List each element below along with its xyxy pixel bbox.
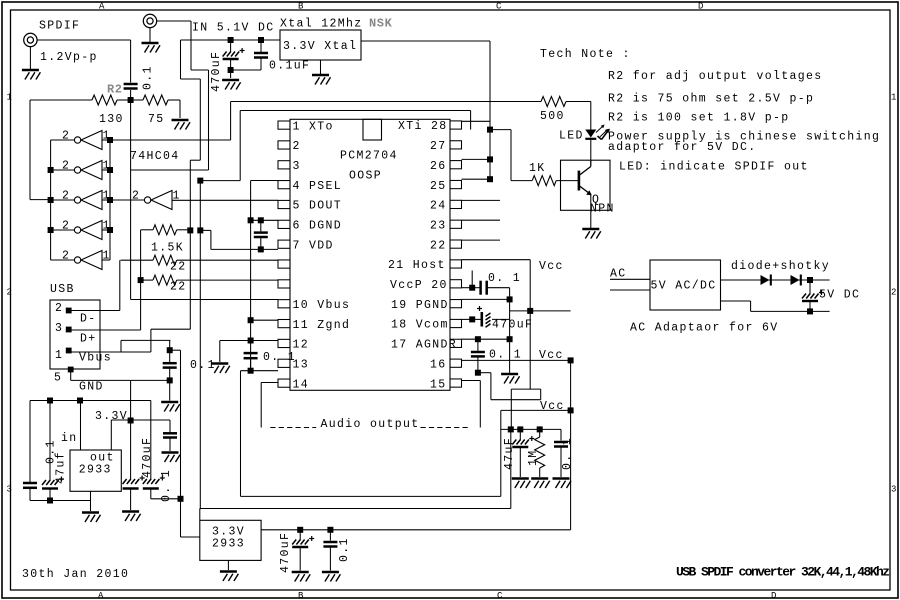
svg-text:4 PSEL: 4 PSEL	[293, 180, 343, 193]
capacitor 470uF Vcom electrolytic	[477, 306, 491, 327]
svg-text:USB SPDIF converter 32K,44,1,4: USB SPDIF converter 32K,44,1,48Khz	[676, 565, 889, 580]
junction rail 47uf	[47, 398, 53, 404]
regulator U3 2933 box	[70, 450, 121, 491]
junction pin26 tap	[487, 156, 493, 162]
svg-text:0. 1: 0. 1	[263, 351, 296, 364]
pin 1 square	[278, 121, 290, 129]
svg-text:Vbus: Vbus	[79, 352, 112, 365]
capacitor 0.1 VDD-DGND	[254, 220, 268, 252]
svg-text:VccP 20: VccP 20	[390, 279, 448, 292]
ground under SPDIF	[22, 69, 39, 71]
junction left bus row4	[48, 227, 54, 233]
wire pin19-20 vertical	[509, 288, 511, 373]
resistor 75	[131, 95, 180, 126]
wire AC input 2	[610, 289, 650, 291]
svg-text:15: 15	[430, 378, 447, 391]
svg-text:14: 14	[293, 378, 310, 391]
wire SPDIF tip	[37, 39, 130, 41]
wire 5V line B	[200, 509, 511, 521]
wire DGND	[251, 219, 278, 221]
wire rail 110 riser	[470, 111, 472, 130]
wire in pin	[80, 401, 82, 451]
svg-text:3: 3	[55, 322, 63, 335]
pin 16 square	[450, 359, 462, 367]
pin 6 square	[278, 220, 290, 228]
USB Vbus decouple jog	[121, 340, 170, 352]
svg-text:3.3V: 3.3V	[95, 410, 128, 423]
tech note checkmark	[598, 129, 611, 140]
svg-text:AC Adaptaor for 6V: AC Adaptaor for 6V	[630, 322, 779, 335]
junction 3.3V cap	[128, 418, 134, 424]
svg-text:47uf: 47uf	[55, 451, 68, 484]
svg-text:2: 2	[55, 302, 63, 315]
LED D1	[559, 125, 609, 143]
USB pin3 D+	[55, 322, 141, 346]
svg-text:25: 25	[430, 180, 447, 193]
svg-text:PCM2704: PCM2704	[340, 150, 398, 163]
wire 75 to ground	[179, 100, 181, 118]
ground under cluster 0.1	[553, 477, 570, 479]
svg-text:OOSP: OOSP	[349, 170, 382, 183]
wire adapter output return	[721, 301, 830, 311]
USB pin5 GND	[54, 367, 170, 394]
junction pin12 cap	[248, 338, 254, 344]
svg-text:in: in	[61, 432, 78, 445]
junction right bus row2	[107, 167, 113, 173]
junction clock line	[487, 127, 493, 133]
svg-text:0.1uF: 0.1uF	[269, 60, 310, 73]
wire adapter output +	[721, 279, 811, 281]
svg-text:D+: D+	[80, 333, 97, 346]
wire PSEL/ground vertical	[250, 181, 252, 371]
pin 18 square	[450, 319, 462, 327]
pin 15 square	[450, 379, 462, 387]
ground under 3.3V 0.1 cap	[162, 451, 179, 453]
zone numbers right	[891, 93, 896, 495]
junction Vcc pin16	[568, 357, 574, 363]
capacitor 0.1 bottom-left	[23, 483, 50, 501]
pin 27 square	[450, 141, 462, 149]
resistor 500	[540, 97, 591, 124]
wire Vbus branch to regulator	[170, 350, 199, 537]
svg-text:1: 1	[55, 349, 63, 362]
svg-text:22: 22	[430, 239, 447, 252]
inverter U1-6 driver gate	[110, 190, 181, 210]
ground under U4	[220, 570, 237, 572]
capacitor 47uF cluster electrolytic	[512, 429, 534, 477]
svg-text:SPDIF: SPDIF	[39, 20, 80, 33]
Xtal oscillator module box	[280, 30, 361, 60]
svg-text:0. 1: 0. 1	[561, 437, 574, 470]
junction Zgnd	[248, 317, 254, 323]
svg-text:2: 2	[132, 190, 140, 203]
svg-text:75: 75	[148, 113, 165, 126]
wire 5V jog B	[181, 40, 201, 230]
svg-text:3: 3	[891, 485, 896, 495]
wire SPDIF ground stem	[29, 47, 31, 70]
pin 10 square	[278, 300, 290, 308]
zone numbers left	[7, 93, 12, 495]
transistor Q NPN	[561, 160, 615, 215]
wire adapter 5V to Vcc rail	[510, 310, 571, 312]
junction regulator input cap	[178, 496, 184, 502]
svg-text:LED: LED	[559, 130, 584, 143]
ground under 470uF	[222, 79, 239, 81]
capacitor output electrolytic 5V DC	[802, 280, 824, 314]
svg-text:Xtal 12Mhz: Xtal 12Mhz	[280, 18, 363, 31]
wire pin21 Host to Vcc	[462, 260, 541, 430]
right input bus of inverters	[109, 140, 111, 260]
wire Vbus net riser	[151, 230, 190, 352]
svg-text:470uF: 470uF	[492, 319, 533, 332]
capacitor 0.1 AGNDR	[471, 339, 491, 400]
svg-text:R2: R2	[107, 83, 123, 97]
wire 500 to LED	[590, 102, 592, 130]
junction cluster riser	[508, 426, 514, 432]
svg-text:2: 2	[62, 220, 70, 233]
capacitor 470uF input	[223, 37, 245, 78]
inverter U1-4	[51, 220, 111, 240]
junction AGNDR	[507, 336, 513, 342]
wire pin16 Vcc	[462, 359, 571, 361]
wire pin26 tap	[462, 158, 491, 160]
wire 5V input rail	[181, 39, 281, 41]
resistor 1M	[527, 429, 545, 477]
svg-text:C: C	[496, 2, 502, 12]
svg-text:30th Jan 2010: 30th Jan 2010	[22, 568, 129, 581]
svg-text:Vcc: Vcc	[539, 349, 564, 362]
svg-text:3: 3	[7, 485, 12, 495]
svg-text:1.2Vp-p: 1.2Vp-p	[40, 51, 98, 64]
junction right bus row3	[107, 197, 113, 203]
wire VccP pin20	[462, 271, 510, 291]
wire regulator ground	[90, 491, 92, 511]
IC U2 PCM2704 body	[290, 119, 450, 390]
svg-text:0.1: 0.1	[142, 65, 155, 90]
junction output cap +	[807, 277, 813, 283]
inverter U1-5	[51, 250, 111, 270]
pin 12 square	[278, 339, 290, 347]
svg-text:27: 27	[430, 140, 447, 153]
pin 5 square	[278, 200, 290, 208]
ground under Xtal box	[312, 74, 329, 76]
ground AGNDR	[501, 373, 518, 375]
svg-text:R2 for adj output voltages: R2 for adj output voltages	[608, 70, 823, 83]
ground under 1M	[531, 477, 548, 479]
wire output stub +	[810, 279, 830, 281]
junction U4 0.1	[327, 527, 333, 533]
wire out pin / 3.3V line	[111, 420, 170, 450]
wire pin25 tap	[462, 178, 491, 180]
svg-text:1M: 1M	[527, 449, 540, 466]
svg-text:0. 1: 0. 1	[489, 349, 522, 362]
svg-text:A: A	[99, 2, 105, 12]
junction AGNDR cap	[475, 336, 481, 342]
svg-text:0. 1: 0. 1	[160, 469, 173, 502]
svg-text:5: 5	[54, 372, 62, 385]
diode D3 shotky	[791, 275, 800, 285]
svg-text:23: 23	[430, 219, 447, 232]
svg-text:24: 24	[430, 200, 447, 213]
pin 25 square	[450, 180, 462, 188]
capacitor R2 0.1 (series output cap)	[124, 40, 138, 100]
wire Vcc cluster line	[501, 410, 571, 496]
wire clock vertical taps	[489, 130, 491, 180]
audio output dashed line left	[270, 427, 316, 429]
node junction at attenuator	[128, 97, 134, 103]
ground mid	[211, 362, 228, 364]
svg-text:0.: 0.	[190, 359, 207, 372]
junction rail in-pin	[77, 398, 83, 404]
wire Zgnd	[251, 319, 278, 321]
pin 20 square	[450, 280, 462, 288]
junction DGND vertical	[248, 217, 254, 223]
pin 24 square	[450, 200, 462, 208]
capacitor 0.1 cluster	[554, 429, 568, 477]
svg-text:1 XTo: 1 XTo	[293, 120, 334, 133]
svg-text:3.3V Xtal: 3.3V Xtal	[283, 40, 357, 53]
svg-text:470uF: 470uF	[141, 437, 154, 478]
svg-text:470uF: 470uF	[210, 51, 223, 92]
wire inverter input bus to LED rail	[110, 102, 231, 141]
wire rail 110	[200, 111, 470, 181]
svg-text:IN 5.1V DC: IN 5.1V DC	[192, 22, 275, 35]
pin 3 square	[278, 161, 290, 169]
wire pin12 ground	[220, 340, 278, 342]
wire vertical net to pin10	[199, 181, 201, 510]
junction Vcc adapter line	[527, 308, 533, 314]
wire clock to 1K	[490, 129, 511, 131]
svg-text:LED: indicate SPDIF out: LED: indicate SPDIF out	[619, 161, 809, 174]
svg-text:10 Vbus: 10 Vbus	[293, 299, 351, 312]
svg-text:R2 is 100 set 1.8V p-p: R2 is 100 set 1.8V p-p	[608, 112, 790, 125]
svg-text:12: 12	[293, 339, 310, 352]
svg-text:5V DC: 5V DC	[819, 289, 860, 302]
pin 14 square	[278, 379, 290, 387]
wire Xtal ground stem	[320, 60, 322, 74]
junction Vcc cluster	[568, 407, 574, 413]
wire DOUT to inverter	[172, 199, 279, 201]
wire VDD	[200, 230, 278, 249]
pin 9 square	[278, 280, 290, 288]
pin 7 square	[278, 240, 290, 248]
junction DGND cap	[258, 217, 264, 223]
audio output dashed line right	[421, 427, 470, 429]
ground under 75	[172, 119, 189, 121]
resistor 22 D+	[138, 275, 278, 293]
junction right bus row4	[107, 227, 113, 233]
wire PSEL strap	[251, 180, 278, 182]
svg-text:B: B	[298, 2, 304, 12]
pin 22 square	[450, 240, 462, 248]
capacitor 470uF 3.3V electrolytic	[123, 380, 145, 510]
wire 5V jog A	[131, 21, 209, 170]
svg-text:16: 16	[430, 358, 447, 371]
capacitor 0.1uF input	[231, 37, 268, 70]
wire pin13 return line	[241, 495, 501, 497]
IN RCA connector J2	[143, 14, 274, 34]
svg-text:NSK: NSK	[369, 17, 393, 31]
wire Vcom pin18	[462, 316, 510, 322]
inverter U1-3	[51, 190, 111, 210]
capacitor 47uf electrolytic	[42, 401, 91, 504]
pin 28 square	[450, 121, 462, 129]
wire AGNDR pin17	[462, 338, 510, 340]
svg-text:2: 2	[62, 130, 70, 143]
svg-text:B: B	[298, 591, 304, 600]
junction PSEL net	[197, 178, 203, 184]
diode D2	[761, 275, 770, 285]
svg-text:2: 2	[891, 288, 896, 298]
svg-text:2: 2	[62, 250, 70, 263]
resistor 1.5K	[141, 225, 191, 255]
wire LED to collector	[590, 139, 592, 166]
svg-text:R2 is 75 ohm set 2.5V p-p: R2 is 75 ohm set 2.5V p-p	[608, 93, 814, 106]
wire pin22 stub	[462, 239, 501, 241]
wire pin14 bracket	[261, 383, 278, 428]
svg-text:1: 1	[208, 359, 216, 372]
wire pin24 stub	[462, 199, 501, 201]
pin 8 square	[278, 260, 290, 268]
wire D- riser	[119, 260, 121, 310]
wire U4 output 3.3V to Vcc	[261, 529, 570, 531]
junction cluster ecap	[517, 426, 523, 432]
ground under IN connector	[142, 42, 159, 44]
svg-text:6 DGND: 6 DGND	[293, 220, 343, 233]
svg-text:19 PGND: 19 PGND	[391, 299, 449, 312]
capacitor 0.1 Vbus	[163, 340, 177, 400]
wire cluster top	[501, 428, 561, 430]
capacitor 470uF U4 electrolytic	[292, 530, 314, 571]
svg-text:22: 22	[170, 281, 187, 294]
wire PGND pin19	[462, 298, 510, 300]
svg-text:AC: AC	[610, 268, 627, 281]
svg-text:GND: GND	[79, 381, 104, 394]
svg-text:D: D	[698, 2, 703, 12]
svg-text:Tech Note :: Tech Note :	[540, 48, 631, 61]
svg-text:XTi 28: XTi 28	[398, 120, 448, 133]
wire Xtal clock output	[361, 41, 490, 130]
USB pin1 Vbus	[55, 348, 151, 365]
wire pin23 stub	[462, 219, 501, 221]
svg-text:0.1: 0.1	[338, 537, 351, 562]
zone letters bottom	[98, 591, 776, 600]
svg-text:130: 130	[99, 113, 124, 126]
SPDIF RCA connector J1	[24, 20, 81, 47]
junction cluster resistor	[537, 426, 543, 432]
ground under U4 470uF	[292, 571, 309, 573]
svg-text:2: 2	[7, 288, 12, 298]
svg-text:3: 3	[293, 160, 301, 173]
pin 4 square	[278, 181, 290, 189]
svg-text:21 Host: 21 Host	[388, 259, 446, 272]
svg-text:2: 2	[293, 140, 301, 153]
svg-text:5V AC/DC: 5V AC/DC	[651, 280, 717, 293]
pin 17 square	[450, 339, 462, 347]
svg-text:1.5K: 1.5K	[151, 242, 184, 255]
pin 21 square	[450, 260, 462, 268]
svg-text:7 VDD: 7 VDD	[293, 239, 334, 252]
resistor 1K base	[511, 130, 579, 186]
wire SPDIF drive from inverters	[30, 100, 51, 200]
junction U4 470uF	[297, 527, 303, 533]
pin 19 square	[450, 300, 462, 308]
svg-text:18 Vcom: 18 Vcom	[391, 319, 449, 332]
pin 23 square	[450, 220, 462, 228]
resistor 130	[30, 95, 131, 126]
svg-text:1: 1	[891, 93, 896, 103]
regulator U4 3.3V 2933 box	[200, 520, 261, 560]
wire LED rail	[231, 101, 541, 103]
wire cluster to 5V line	[510, 429, 512, 508]
wire pin13	[241, 371, 279, 497]
USB connector box	[50, 283, 100, 369]
label 0. 1 near Vbus cap	[190, 359, 216, 372]
svg-text:22: 22	[170, 261, 187, 274]
wire emitter to ground	[590, 210, 592, 228]
junction left bus row3	[48, 197, 54, 203]
inverter U1-1	[51, 130, 111, 150]
wire ground stem mid	[219, 341, 221, 363]
zone letters top	[99, 2, 703, 12]
svg-text:Audio output: Audio output	[321, 418, 420, 431]
left output bus of inverters	[50, 140, 52, 260]
pin 26 square	[450, 161, 462, 169]
svg-text:diode+shotky: diode+shotky	[731, 260, 830, 273]
svg-text:2933: 2933	[212, 538, 245, 551]
wire 5V to pin10 Vbus	[131, 100, 278, 300]
svg-text:C: C	[497, 591, 503, 600]
svg-text:D: D	[771, 591, 776, 600]
inverter U1-2	[51, 160, 111, 180]
wire IN ground stem	[149, 28, 151, 42]
svg-text:5 DOUT: 5 DOUT	[293, 200, 343, 213]
svg-text:D-: D-	[80, 313, 97, 326]
svg-text:A: A	[98, 591, 104, 600]
pin 2 square	[278, 141, 290, 149]
svg-text:2: 2	[62, 160, 70, 173]
wire regulator input rail	[30, 401, 151, 483]
wire XTi pin28 tap	[462, 120, 491, 122]
svg-text:USB: USB	[50, 283, 75, 296]
ground under cluster 47uF	[512, 477, 529, 479]
svg-text:2: 2	[62, 190, 70, 203]
wire regulator U4 ground	[227, 560, 229, 570]
svg-text:NPN: NPN	[590, 203, 615, 216]
capacitor 0.1 VccP	[479, 281, 482, 295]
wire IN tip	[157, 20, 191, 22]
ground under Vbus cap	[161, 401, 178, 403]
svg-text:Vcc: Vcc	[539, 260, 564, 273]
capacitor 0.1 on 3.3V	[163, 420, 177, 451]
pin 13 square	[278, 359, 290, 367]
wire D+ riser	[140, 230, 142, 330]
svg-text:0. 1: 0. 1	[488, 272, 521, 285]
junction left bus row2	[48, 167, 54, 173]
resistor 22 D-	[121, 255, 279, 273]
junction PGND	[507, 296, 513, 302]
capacitor 0.1 Zgnd	[244, 351, 296, 374]
svg-text:500: 500	[540, 110, 565, 123]
svg-text:adaptor for 5V DC.: adaptor for 5V DC.	[608, 141, 757, 154]
svg-text:1: 1	[7, 93, 12, 103]
svg-text:Vcc: Vcc	[540, 400, 565, 413]
svg-text:1K: 1K	[529, 162, 546, 175]
ground under regulator 2933	[82, 511, 99, 513]
junction 1.5K right	[197, 227, 203, 233]
junction pin25 tap	[487, 176, 493, 182]
svg-text:17 AGNDR: 17 AGNDR	[391, 339, 457, 352]
